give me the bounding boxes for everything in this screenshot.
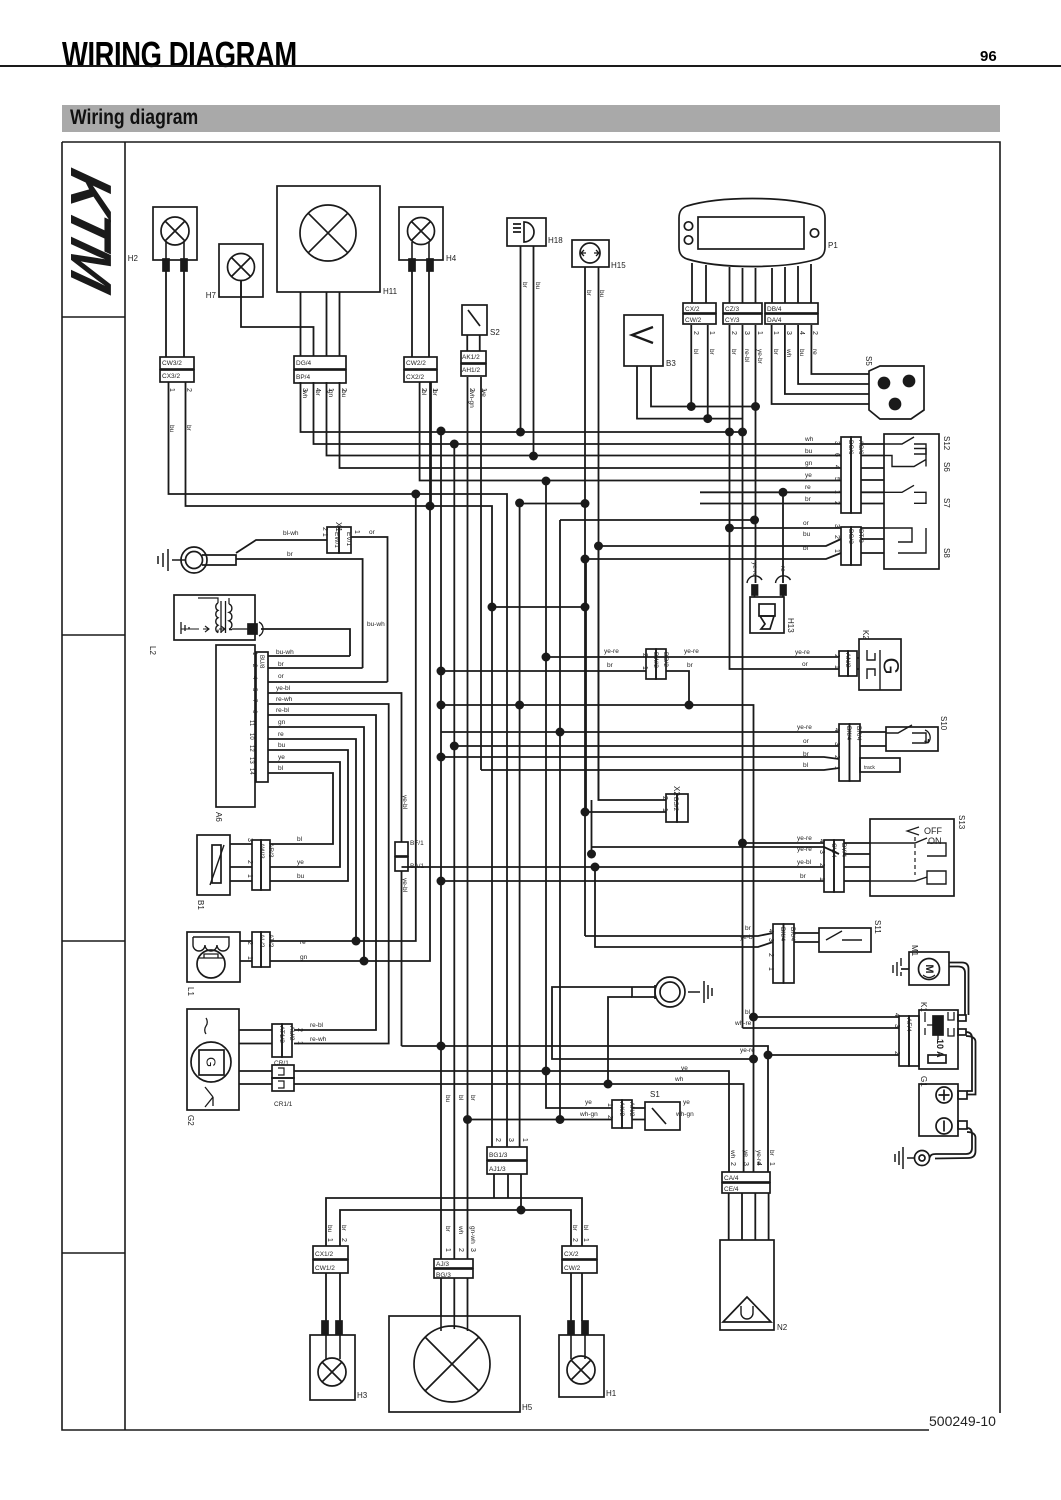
svg-text:3: 3 <box>742 1162 749 1166</box>
svg-text:1: 1 <box>521 1138 528 1142</box>
svg-text:gn: gn <box>805 460 813 467</box>
svg-text:wh: wh <box>804 436 814 443</box>
svg-text:P1: P1 <box>828 241 838 250</box>
svg-text:br: br <box>800 873 807 880</box>
svg-text:S11: S11 <box>873 920 882 934</box>
svg-text:B3: B3 <box>666 359 676 368</box>
svg-text:G: G <box>204 1057 219 1067</box>
svg-text:2: 2 <box>606 1115 613 1119</box>
svg-text:H7: H7 <box>206 291 217 300</box>
svg-text:2: 2 <box>420 388 427 392</box>
svg-text:BC/6: BC/6 <box>847 440 854 455</box>
svg-text:ON: ON <box>928 836 942 846</box>
svg-text:AJ1/3: AJ1/3 <box>489 1166 506 1173</box>
svg-text:1: 1 <box>353 530 360 534</box>
svg-text:KTM: KTM <box>58 163 123 300</box>
svg-text:BR/4: BR/4 <box>855 726 862 741</box>
svg-text:2: 2 <box>457 1248 464 1252</box>
svg-text:4: 4 <box>833 465 840 469</box>
svg-text:wh-gn: wh-gn <box>579 1111 598 1118</box>
svg-text:ye: ye <box>297 859 304 866</box>
svg-text:H5: H5 <box>522 1403 533 1412</box>
svg-text:1: 1 <box>768 1162 775 1166</box>
svg-text:gn-wh: gn-wh <box>469 1226 476 1244</box>
svg-text:S6: S6 <box>942 462 951 472</box>
svg-text:AN/2: AN/2 <box>844 653 851 668</box>
svg-text:11: 11 <box>248 720 254 727</box>
svg-text:BK/4: BK/4 <box>779 927 786 941</box>
svg-text:ye: ye <box>683 1099 690 1106</box>
svg-text:BK/4: BK/4 <box>789 927 796 941</box>
svg-text:3: 3 <box>767 938 774 942</box>
svg-text:1: 1 <box>818 877 825 881</box>
svg-text:ye-bl: ye-bl <box>740 934 755 941</box>
svg-text:re: re <box>278 731 284 738</box>
svg-text:re: re <box>300 939 306 946</box>
svg-text:br: br <box>805 496 812 503</box>
svg-text:2: 2 <box>340 1238 347 1242</box>
svg-text:2: 2 <box>833 501 840 505</box>
svg-text:ye-bl: ye-bl <box>797 859 812 866</box>
svg-text:DA/4: DA/4 <box>767 317 782 324</box>
svg-text:ye-bl: ye-bl <box>276 685 291 692</box>
svg-text:2: 2 <box>729 1162 736 1166</box>
svg-text:2: 2 <box>833 755 840 759</box>
svg-text:BT/3: BT/3 <box>857 529 864 543</box>
svg-text:1: 1 <box>327 388 334 392</box>
svg-text:AW/3: AW/3 <box>258 843 265 859</box>
svg-text:S8: S8 <box>942 548 951 558</box>
svg-text:BY/4: BY/4 <box>840 843 847 857</box>
svg-text:CW1/2: CW1/2 <box>315 1265 335 1272</box>
svg-text:wh: wh <box>457 1225 464 1235</box>
svg-text:K2: K2 <box>861 630 870 640</box>
svg-text:BW/2: BW/2 <box>652 652 659 668</box>
svg-text:A6: A6 <box>214 812 223 822</box>
svg-text:AH1/2: AH1/2 <box>462 367 480 374</box>
svg-text:CA/4: CA/4 <box>724 1175 739 1182</box>
svg-text:ye-re: ye-re <box>740 1047 755 1054</box>
svg-text:bl: bl <box>278 765 284 772</box>
svg-text:ye-re: ye-re <box>797 724 812 731</box>
svg-text:3: 3 <box>507 1138 514 1142</box>
svg-text:13: 13 <box>248 757 254 764</box>
svg-text:AT/2: AT/2 <box>267 934 274 948</box>
svg-text:2: 2 <box>246 860 253 864</box>
svg-text:bl: bl <box>745 1009 751 1016</box>
svg-text:M1: M1 <box>910 945 919 957</box>
svg-text:ye-re: ye-re <box>751 562 758 577</box>
svg-text:AF/4: AF/4 <box>905 1018 912 1032</box>
svg-text:AH/2: AH/2 <box>628 1102 635 1117</box>
svg-text:BA/1: BA/1 <box>410 863 424 870</box>
svg-text:CW/2: CW/2 <box>564 1265 581 1272</box>
svg-text:or: or <box>802 661 809 668</box>
svg-text:BF/1: BF/1 <box>410 840 424 847</box>
svg-text:L1: L1 <box>186 987 195 996</box>
svg-text:ye-re: ye-re <box>604 648 619 655</box>
svg-text:1: 1 <box>833 549 840 553</box>
svg-text:S5: S5 <box>864 356 873 366</box>
svg-text:AT1/2: AT1/2 <box>278 1026 285 1043</box>
svg-text:bu: bu <box>326 1225 333 1233</box>
svg-text:S2: S2 <box>490 328 500 337</box>
svg-text:2: 2 <box>641 653 648 657</box>
svg-text:re: re <box>811 349 818 355</box>
svg-text:S1: S1 <box>650 1090 660 1099</box>
svg-text:wh-gn: wh-gn <box>675 1111 694 1118</box>
svg-text:N2: N2 <box>777 1323 788 1332</box>
svg-text:1: 1 <box>772 331 779 335</box>
svg-text:4: 4 <box>893 1013 900 1017</box>
svg-text:1: 1 <box>756 331 763 335</box>
svg-text:BS/2: BS/2 <box>672 797 679 811</box>
svg-text:G2: G2 <box>186 1115 195 1126</box>
svg-text:BG/3: BG/3 <box>436 1272 451 1279</box>
svg-text:AC/6: AC/6 <box>857 440 864 455</box>
svg-text:ye-bl: ye-bl <box>401 795 408 810</box>
svg-text:bu: bu <box>168 425 175 433</box>
svg-text:2 1: 2 1 <box>321 527 328 537</box>
svg-text:bl: bl <box>803 762 809 769</box>
svg-text:wh: wh <box>674 1076 684 1083</box>
svg-text:BK/4: BK/4 <box>845 726 852 740</box>
svg-text:4: 4 <box>755 1162 762 1166</box>
svg-text:CX1/2: CX1/2 <box>315 1251 333 1258</box>
svg-text:H2: H2 <box>128 254 139 263</box>
svg-text:1: 1 <box>246 956 253 960</box>
svg-text:10 A: 10 A <box>935 1039 945 1058</box>
svg-text:CW/2: CW/2 <box>685 317 702 324</box>
svg-text:DG/4: DG/4 <box>296 360 312 367</box>
svg-text:BG/3: BG/3 <box>847 529 854 544</box>
svg-text:gn: gn <box>300 954 308 961</box>
svg-text:ye-re: ye-re <box>684 648 699 655</box>
svg-text:12: 12 <box>248 745 254 752</box>
svg-text:re-bl: re-bl <box>276 707 290 714</box>
svg-text:3: 3 <box>833 441 840 445</box>
svg-text:3: 3 <box>301 388 308 392</box>
svg-text:H4: H4 <box>446 254 457 263</box>
svg-text:2: 2 <box>185 388 192 392</box>
svg-text:1: 1 <box>641 666 648 670</box>
svg-text:bl: bl <box>692 349 699 355</box>
svg-text:br: br <box>607 662 614 669</box>
svg-text:M: M <box>923 964 935 973</box>
svg-text:X1: X1 <box>334 522 343 532</box>
svg-text:2: 2 <box>833 535 840 539</box>
svg-text:or: or <box>803 738 810 745</box>
svg-text:2: 2 <box>661 796 668 800</box>
svg-text:or: or <box>803 520 810 527</box>
svg-text:1: 1 <box>708 331 715 335</box>
svg-text:ye-re: ye-re <box>797 846 812 853</box>
svg-text:AK/2: AK/2 <box>618 1102 625 1116</box>
svg-text:br: br <box>730 349 737 356</box>
svg-text:AR/3: AR/3 <box>267 843 274 858</box>
svg-text:2: 2 <box>730 331 737 335</box>
svg-text:5: 5 <box>833 477 840 481</box>
svg-text:ye: ye <box>681 1065 688 1072</box>
svg-text:re-bl: re-bl <box>310 1022 324 1029</box>
svg-text:S7: S7 <box>942 498 951 508</box>
svg-text:ye: ye <box>805 472 812 479</box>
svg-text:1: 1 <box>833 665 840 669</box>
svg-text:2: 2 <box>811 331 818 335</box>
svg-text:AJ/3: AJ/3 <box>436 1261 449 1268</box>
svg-text:CR/1: CR/1 <box>274 1060 289 1067</box>
svg-text:bu: bu <box>803 531 811 538</box>
svg-text:br: br <box>687 662 694 669</box>
svg-text:bl: bl <box>457 1095 464 1101</box>
svg-text:X2: X2 <box>672 786 681 796</box>
svg-text:CV/4: CV/4 <box>830 843 837 858</box>
svg-text:6: 6 <box>833 453 840 457</box>
svg-text:re-bl: re-bl <box>743 349 750 363</box>
svg-text:br: br <box>469 1095 476 1102</box>
svg-text:3: 3 <box>469 1248 476 1252</box>
svg-text:br: br <box>772 349 779 356</box>
svg-text:1: 1 <box>246 874 253 878</box>
svg-text:BU/8: BU/8 <box>258 655 264 669</box>
svg-text:CX2/2: CX2/2 <box>406 374 424 381</box>
svg-text:2: 2 <box>692 331 699 335</box>
svg-text:CW3/2: CW3/2 <box>162 360 182 367</box>
svg-text:K1: K1 <box>919 1002 928 1012</box>
svg-text:1: 1 <box>326 1238 333 1242</box>
svg-text:2: 2 <box>767 953 774 957</box>
svg-text:10: 10 <box>248 733 254 740</box>
svg-text:br: br <box>521 282 528 289</box>
svg-text:wh-re: wh-re <box>734 1020 752 1027</box>
svg-text:1: 1 <box>606 1103 613 1107</box>
svg-text:3: 3 <box>743 331 750 335</box>
svg-text:CW2/2: CW2/2 <box>406 360 426 367</box>
svg-text:CZ/3: CZ/3 <box>725 306 739 313</box>
svg-text:H3: H3 <box>357 1391 368 1400</box>
svg-text:DB/4: DB/4 <box>767 306 782 313</box>
svg-text:OFF: OFF <box>924 826 942 836</box>
svg-text:br: br <box>571 1225 578 1232</box>
svg-text:2: 2 <box>833 654 840 658</box>
svg-text:AU/2: AU/2 <box>288 1026 295 1041</box>
svg-text:wh: wh <box>785 348 792 358</box>
svg-text:1: 1 <box>833 766 840 770</box>
svg-text:2: 2 <box>296 1028 303 1032</box>
svg-text:2: 2 <box>340 388 347 392</box>
svg-text:ye: ye <box>585 1099 592 1106</box>
svg-text:G1: G1 <box>919 1076 928 1087</box>
svg-text:S13: S13 <box>957 815 966 830</box>
svg-text:H1: H1 <box>606 1389 617 1398</box>
svg-text:2: 2 <box>468 388 475 392</box>
svg-text:ye-br: ye-br <box>756 349 763 365</box>
svg-text:br: br <box>768 1150 775 1157</box>
svg-text:br: br <box>287 551 294 558</box>
svg-text:AL/2: AL/2 <box>258 934 265 948</box>
svg-text:br: br <box>185 425 192 432</box>
svg-text:or: or <box>369 529 376 536</box>
svg-text:br: br <box>803 751 810 758</box>
svg-text:2: 2 <box>494 1138 501 1142</box>
svg-text:CE/4: CE/4 <box>724 1186 739 1193</box>
svg-text:gn: gn <box>278 719 286 726</box>
svg-text:L2: L2 <box>148 646 157 655</box>
svg-text:bl-wh: bl-wh <box>283 530 299 537</box>
svg-text:H18: H18 <box>548 236 563 245</box>
svg-text:ye-bl: ye-bl <box>401 878 408 893</box>
svg-text:2: 2 <box>246 941 253 945</box>
svg-text:CX/2: CX/2 <box>564 1251 579 1258</box>
svg-text:BG1/3: BG1/3 <box>489 1152 508 1159</box>
svg-text:br: br <box>745 925 752 932</box>
svg-text:wh: wh <box>729 1149 736 1159</box>
svg-text:1: 1 <box>582 1238 589 1242</box>
svg-text:4: 4 <box>314 388 321 392</box>
svg-text:EW/1: EW/1 <box>333 532 340 548</box>
svg-text:CR1/1: CR1/1 <box>274 1101 293 1108</box>
svg-text:bu: bu <box>297 873 305 880</box>
svg-text:G: G <box>879 657 904 674</box>
svg-text:1: 1 <box>296 1041 303 1045</box>
svg-text:1: 1 <box>480 388 487 392</box>
svg-text:S12: S12 <box>942 436 951 451</box>
svg-text:ye: ye <box>742 1150 749 1157</box>
svg-text:br: br <box>444 1226 451 1233</box>
svg-text:bu: bu <box>444 1095 451 1103</box>
svg-text:br: br <box>585 290 592 297</box>
svg-text:4: 4 <box>767 929 774 933</box>
svg-text:bu-wh: bu-wh <box>276 649 294 656</box>
svg-text:ye-re: ye-re <box>795 649 810 656</box>
svg-text:br: br <box>340 1225 347 1232</box>
svg-text:2: 2 <box>893 1051 900 1055</box>
svg-text:4: 4 <box>833 728 840 732</box>
svg-text:4: 4 <box>798 331 805 335</box>
svg-text:bl: bl <box>582 1225 589 1231</box>
svg-text:CX/2: CX/2 <box>685 306 700 313</box>
svg-text:br: br <box>278 661 285 668</box>
svg-text:track: track <box>864 765 875 771</box>
svg-text:re-wh: re-wh <box>310 1036 327 1043</box>
svg-text:3: 3 <box>833 742 840 746</box>
svg-text:1: 1 <box>431 388 438 392</box>
svg-text:1: 1 <box>661 808 668 812</box>
svg-text:CY/3: CY/3 <box>725 317 740 324</box>
svg-text:re: re <box>805 484 811 491</box>
svg-text:3: 3 <box>893 1024 900 1028</box>
svg-text:or: or <box>278 673 285 680</box>
svg-text:bu: bu <box>598 290 605 298</box>
svg-text:2: 2 <box>818 863 825 867</box>
svg-text:EV/1: EV/1 <box>345 532 352 546</box>
svg-text:re: re <box>779 566 786 572</box>
svg-text:bu-wh: bu-wh <box>367 621 385 628</box>
svg-text:BP/4: BP/4 <box>296 374 310 381</box>
svg-text:BO/2: BO/2 <box>662 652 669 667</box>
svg-text:B1: B1 <box>196 900 205 910</box>
svg-text:3: 3 <box>246 838 253 842</box>
svg-text:4: 4 <box>818 839 825 843</box>
svg-text:bl: bl <box>803 545 809 552</box>
svg-text:3: 3 <box>785 331 792 335</box>
svg-text:H13: H13 <box>786 618 795 633</box>
svg-text:bl: bl <box>297 836 303 843</box>
svg-text:1: 1 <box>767 967 774 971</box>
svg-text:H11: H11 <box>383 287 398 296</box>
svg-text:1: 1 <box>168 388 175 392</box>
svg-text:2: 2 <box>571 1238 578 1242</box>
svg-text:14: 14 <box>248 768 254 775</box>
svg-text:1: 1 <box>833 490 840 494</box>
svg-text:ye-re: ye-re <box>797 835 812 842</box>
svg-text:bu: bu <box>278 742 286 749</box>
svg-text:S10: S10 <box>939 716 948 731</box>
svg-text:3: 3 <box>818 850 825 854</box>
svg-text:br: br <box>708 349 715 356</box>
svg-text:bu: bu <box>805 448 813 455</box>
svg-text:bu: bu <box>798 349 805 357</box>
svg-text:bu: bu <box>534 282 541 290</box>
svg-text:re-wh: re-wh <box>276 696 293 703</box>
svg-text:3: 3 <box>833 524 840 528</box>
svg-text:ye: ye <box>278 754 285 761</box>
svg-text:CX3/2: CX3/2 <box>162 373 180 380</box>
svg-text:1: 1 <box>444 1248 451 1252</box>
svg-text:H15: H15 <box>611 261 626 270</box>
svg-text:AK1/2: AK1/2 <box>462 354 480 361</box>
